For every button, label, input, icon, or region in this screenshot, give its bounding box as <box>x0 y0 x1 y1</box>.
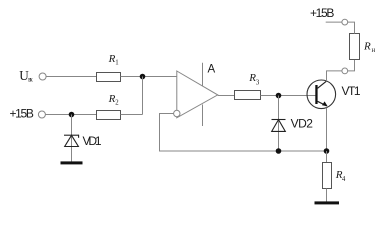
wire <box>121 76 177 78</box>
terminal +15В left <box>10 107 46 121</box>
wire <box>218 95 235 97</box>
ground <box>61 161 83 164</box>
resistor R4 <box>323 163 346 189</box>
svg-text:R: R <box>363 41 371 53</box>
wire <box>348 22 355 33</box>
svg-text:VD2: VD2 <box>291 116 314 130</box>
wire <box>327 71 342 81</box>
svg-text:1: 1 <box>115 59 118 66</box>
wire <box>326 21 342 23</box>
wire <box>160 114 327 152</box>
wire <box>45 114 96 116</box>
ground <box>315 201 340 204</box>
wire <box>46 76 96 78</box>
wire <box>348 60 355 71</box>
resistor R2 <box>97 93 121 120</box>
wire <box>326 108 328 151</box>
node junction VD2 top <box>276 93 282 99</box>
svg-text:н: н <box>372 47 376 54</box>
transistor VT1 <box>307 80 361 109</box>
svg-text:вх: вх <box>28 76 33 83</box>
wire <box>261 95 316 97</box>
terminal Rн bottom <box>342 68 348 74</box>
svg-text:VT1: VT1 <box>342 84 361 98</box>
svg-text:+15В: +15В <box>310 6 334 20</box>
terminal Uвх <box>19 68 46 83</box>
node junction R4 <box>324 148 330 154</box>
svg-text:A: A <box>208 64 216 76</box>
svg-text:4: 4 <box>342 176 346 183</box>
wire <box>326 151 328 163</box>
wire <box>121 114 143 116</box>
resistor Rн <box>350 34 376 60</box>
wire <box>278 96 280 152</box>
node junction VD2 bottom <box>276 148 282 154</box>
op-amp A <box>177 63 218 126</box>
inverting input bubble <box>174 110 180 116</box>
svg-text:3: 3 <box>256 79 260 86</box>
wire <box>71 115 73 162</box>
resistor R3 <box>235 72 261 100</box>
node junction R1-R2 <box>140 74 146 80</box>
terminal +15В top right <box>310 6 348 25</box>
resistor R1 <box>97 53 121 82</box>
diode VD2 <box>272 116 314 131</box>
svg-text:2: 2 <box>115 99 119 106</box>
zener diode VD1 <box>64 134 102 148</box>
wire <box>142 77 144 115</box>
svg-text:+15В: +15В <box>10 107 34 121</box>
svg-text:VD1: VD1 <box>83 134 102 148</box>
wire <box>326 189 328 202</box>
node junction VD1 <box>69 112 75 118</box>
